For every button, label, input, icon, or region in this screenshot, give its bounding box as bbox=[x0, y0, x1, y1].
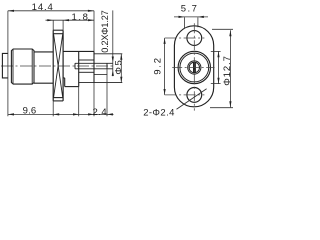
pin top edge bbox=[75, 62, 113, 64]
contact circle bbox=[189, 62, 199, 72]
ext line bottom right bbox=[210, 107, 233, 109]
extension line x107 pin tip bottom bbox=[106, 69, 108, 117]
extension line x7.9 (interface) bbox=[7, 11, 9, 117]
lower section bottom bbox=[65, 86, 79, 88]
svg-text:2.4: 2.4 bbox=[92, 107, 107, 118]
big circle outer bbox=[178, 51, 210, 83]
svg-text:14.4: 14.4 bbox=[32, 2, 54, 13]
ext line top right bbox=[212, 28, 233, 30]
arrow phi5 bottom (down) bbox=[120, 77, 122, 83]
nut inner line right bbox=[31, 49, 33, 84]
svg-text:1.8: 1.8 bbox=[71, 12, 89, 23]
vertical centerline right view bbox=[193, 23, 195, 110]
arrow 1.8 right (tip at flange right) bbox=[63, 19, 69, 21]
bottom hole crosshair bbox=[165, 94, 205, 96]
dim line 14.4 bbox=[8, 10, 94, 12]
flange plate outline (stadium) bbox=[174, 26, 213, 107]
flange top inner line bbox=[53, 33, 63, 35]
arrow phi12.7 top bbox=[217, 51, 219, 57]
flange X diagonal 1 bbox=[54, 34, 63, 97]
centerline left view bbox=[1, 65, 115, 67]
flange bottom inner line bbox=[53, 97, 63, 99]
extension line x78.9 bottom bbox=[78, 83, 80, 117]
arrow 1.8 line right end bbox=[88, 19, 94, 21]
pin left end bbox=[74, 63, 76, 69]
contact slot bbox=[193, 62, 196, 72]
bore bottom bbox=[79, 71, 94, 73]
bore top bbox=[79, 59, 94, 61]
arrow 9.2 bottom bbox=[164, 89, 166, 95]
flange X diagonal 2 bbox=[54, 34, 63, 97]
svg-text:9.2: 9.2 bbox=[152, 56, 163, 75]
arrow outer dim top bbox=[229, 30, 231, 36]
arrow 5.7 left bbox=[179, 16, 185, 18]
svg-text:2-Φ2.4: 2-Φ2.4 bbox=[143, 107, 175, 118]
arrow phi1.27 lower (up) bbox=[112, 70, 114, 76]
dim line phi12.7 bbox=[218, 51, 220, 83]
pin bottom edge bbox=[75, 68, 113, 70]
flange top edge bbox=[53, 29, 63, 31]
extension line flange left bottom bbox=[52, 101, 54, 116]
body mid top bbox=[34, 51, 53, 53]
flange right edge bbox=[62, 30, 64, 101]
arrow 14.4 right bbox=[88, 10, 94, 12]
extension line x93 top bbox=[93, 11, 95, 52]
dim line phi1.27 vertical bbox=[112, 10, 114, 76]
body right of flange: top edge bbox=[63, 50, 94, 52]
arrow outer dim bottom bbox=[229, 101, 231, 107]
top hole crosshair bbox=[165, 37, 205, 39]
top mounting hole bbox=[187, 31, 202, 46]
lower step: vertical bbox=[64, 78, 66, 87]
svg-text:Φ12.7: Φ12.7 bbox=[222, 55, 233, 86]
svg-text:5.7: 5.7 bbox=[181, 3, 199, 14]
leader 2-phi2.4 bbox=[177, 89, 207, 110]
flange left edge bbox=[52, 30, 54, 101]
body right face bbox=[93, 51, 95, 82]
svg-text:Φ5: Φ5 bbox=[113, 59, 124, 75]
arrow 2.4 right bbox=[107, 113, 113, 115]
arrow 1.8 left (tip at flange left) bbox=[47, 19, 53, 21]
nut inner line left bbox=[12, 49, 14, 84]
svg-text:0.2XΦ1.27: 0.2XΦ1.27 bbox=[100, 10, 110, 52]
lower step: stub bbox=[63, 77, 65, 79]
arrow 5.7 right bbox=[198, 16, 204, 18]
body mid bottom bbox=[34, 82, 53, 84]
extension line x93 bottom bbox=[93, 83, 95, 117]
ext ticks phi12.7 bbox=[211, 50, 221, 52]
arrow 9.6 left bbox=[8, 113, 14, 115]
outer dim vertical right edge bbox=[229, 30, 231, 107]
ext lines 5.7 bbox=[183, 17, 185, 28]
insulator circle bbox=[188, 61, 201, 74]
left cap body bbox=[2, 53, 8, 78]
arrow 14.4 left bbox=[8, 10, 14, 12]
arrow 2.4 left bbox=[88, 113, 94, 115]
arrow phi5 top (up) bbox=[120, 54, 122, 60]
dim line phi5 vertical bbox=[120, 54, 122, 83]
extension lines 1.8 dim bbox=[52, 20, 54, 30]
dim line 9.2 vertical bbox=[164, 38, 166, 95]
arrow phi1.27 upper (down) bbox=[112, 57, 114, 63]
small line under pin tip bbox=[94, 74, 107, 76]
insulator top line + ext to phi5 dim bbox=[94, 53, 122, 55]
dim line 5.7 bbox=[174, 16, 208, 18]
arrow phi12.7 bottom bbox=[217, 78, 219, 84]
arrow 9.2 top bbox=[164, 38, 166, 44]
ring line bbox=[78, 51, 80, 86]
nut bbox=[11, 49, 34, 84]
arrow chain x78.9 bbox=[73, 113, 79, 115]
bottom mounting hole bbox=[187, 88, 202, 103]
pin tip face bbox=[106, 63, 108, 69]
dim line bottom 9.6 / 2.4 bbox=[8, 113, 114, 115]
svg-text:9.6: 9.6 bbox=[23, 105, 37, 116]
insulator bottom line + ext to phi5 dim bbox=[79, 82, 123, 84]
dim line 1.8 bbox=[46, 19, 95, 21]
arrow 9.6 right / chain at flange bbox=[53, 113, 59, 115]
flange bottom edge bbox=[53, 100, 63, 102]
horizontal centerline right view bbox=[172, 67, 214, 69]
big circle inner bbox=[180, 53, 209, 82]
